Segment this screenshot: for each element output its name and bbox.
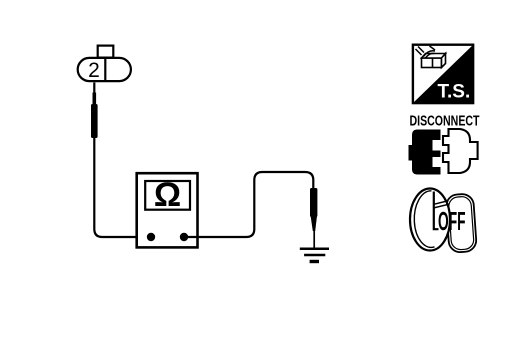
- icon T.S. tool box side face: [442, 54, 446, 68]
- probe 1 tip: [93, 93, 97, 105]
- icon T.S. tool box divider: [432, 58, 434, 68]
- icon key OFF: key slot: [434, 192, 439, 230]
- connector C1 tab: [98, 46, 114, 58]
- probe 2 taper: [311, 216, 317, 231]
- icon T.S. whisker 3: [430, 46, 436, 50]
- svg-text:DISCONNECT: DISCONNECT: [410, 113, 480, 129]
- icon T.S. whisker 2: [418, 47, 424, 53]
- ground G1 line 2: [304, 254, 325, 257]
- svg-text:2: 2: [88, 59, 100, 82]
- svg-text:T.S.: T.S.: [438, 82, 471, 103]
- ground G1 line 1: [300, 248, 329, 251]
- ground G1 line 3: [310, 260, 319, 263]
- icon key OFF: key shaft upper edge: [434, 201, 449, 205]
- ohmmeter right terminal: [180, 233, 188, 241]
- svg-text:OFF: OFF: [438, 208, 466, 236]
- probe 2 needle: [313, 229, 315, 248]
- connector C1 cavity divider: [104, 58, 106, 81]
- ohmmeter M1 case: [137, 173, 198, 247]
- icon T.S. tool box top face: [422, 54, 446, 59]
- icon key OFF: lock face outer ellipse: [410, 189, 450, 251]
- icon key OFF: lock face inner arc: [414, 191, 434, 248]
- icon DISCONNECT right connector half: [443, 129, 478, 173]
- icon DISCONNECT left connector half: [409, 130, 441, 175]
- icon key OFF: key head outer: [445, 193, 476, 252]
- icon T.S. tool strap lower: [426, 53, 435, 58]
- icon key OFF: key shaft lower edge: [434, 204, 449, 208]
- ohmmeter left terminal: [147, 233, 155, 241]
- probe 2 body: [310, 188, 317, 217]
- icon T.S. black triangle: [412, 44, 474, 104]
- icon T.S. tool strap upper: [424, 51, 436, 57]
- icon T.S. tool box front face: [422, 58, 442, 68]
- probe 1 body: [91, 104, 98, 138]
- ohmmeter display window: [145, 181, 190, 210]
- svg-text:Ω: Ω: [154, 176, 181, 214]
- wire: ohmmeter right terminal to probe 2: [184, 172, 313, 237]
- connector C1 body: [78, 58, 131, 81]
- wire: connector pin 2 to probe 1: [93, 83, 95, 95]
- icon key OFF: key head inner line: [448, 196, 474, 250]
- icon T.S. whisker 1: [416, 49, 422, 55]
- wire: probe 1 to ohmmeter left terminal: [94, 138, 151, 237]
- icon T.S. frame: [413, 45, 473, 103]
